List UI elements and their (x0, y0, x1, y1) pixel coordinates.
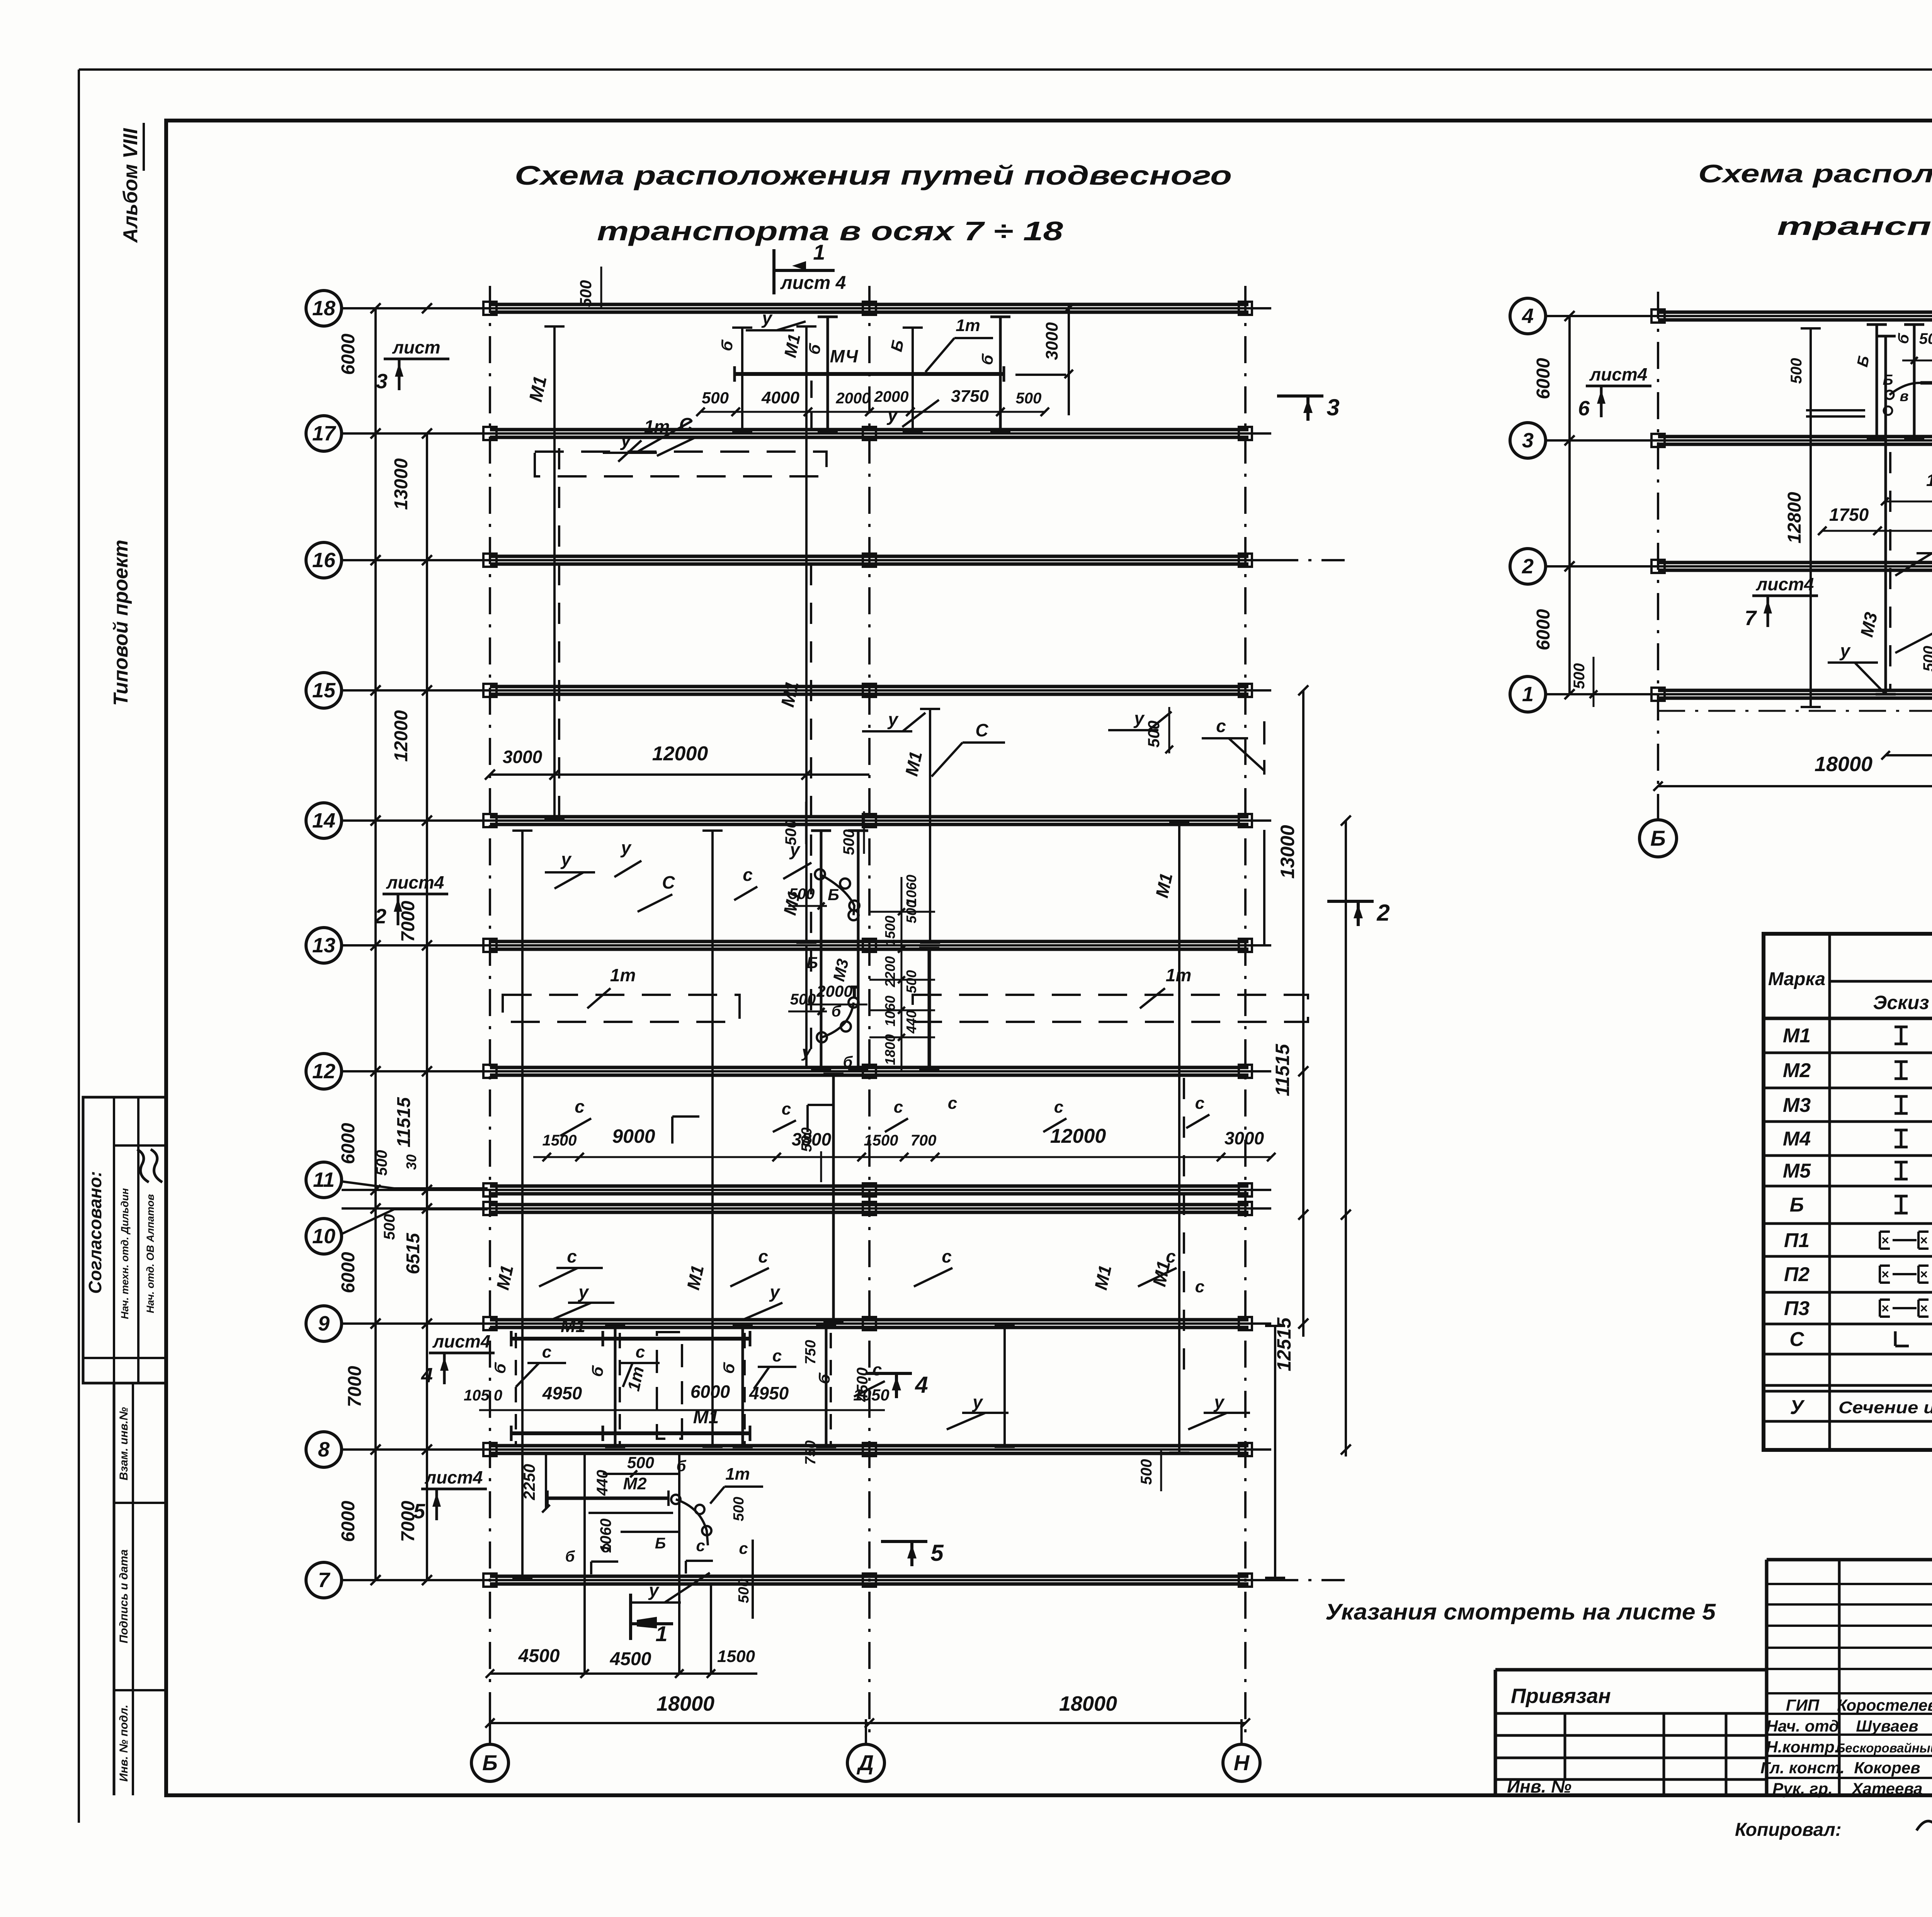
svg-text:М4: М4 (1783, 1128, 1811, 1150)
svg-text:105 0: 105 0 (464, 1387, 502, 1404)
svg-text:3: 3 (1327, 394, 1339, 420)
svg-text:У: У (1790, 1396, 1805, 1419)
svg-text:500: 500 (1919, 330, 1932, 347)
svg-text:4950: 4950 (749, 1383, 789, 1403)
svg-text:12000: 12000 (1050, 1125, 1106, 1147)
svg-text:с: с (1054, 1098, 1063, 1117)
svg-text:Взам. инв.№: Взам. инв.№ (117, 1407, 130, 1480)
svg-text:1500: 1500 (882, 916, 898, 947)
svg-text:с: с (872, 1360, 882, 1379)
svg-text:4: 4 (421, 1364, 433, 1387)
svg-text:500: 500 (789, 885, 815, 902)
svg-text:с: с (636, 1343, 645, 1361)
svg-text:Шуваев: Шуваев (1856, 1717, 1918, 1735)
svg-text:6: 6 (1578, 397, 1590, 420)
svg-text:440: 440 (903, 1010, 919, 1034)
svg-text:2000: 2000 (816, 982, 852, 1000)
svg-text:1: 1 (1522, 683, 1534, 706)
svg-text:4950: 4950 (542, 1383, 582, 1403)
svg-text:1500: 1500 (717, 1647, 755, 1666)
svg-text:б: б (843, 1054, 853, 1071)
svg-text:1750: 1750 (1829, 505, 1869, 525)
svg-text:лист 4: лист 4 (780, 273, 846, 293)
svg-text:Типовой проект: Типовой проект (110, 540, 132, 706)
svg-text:МЧ: МЧ (830, 346, 859, 366)
svg-text:500: 500 (736, 1579, 752, 1603)
svg-text:500: 500 (731, 1497, 747, 1521)
svg-text:2000: 2000 (874, 388, 909, 405)
svg-text:10: 10 (312, 1225, 335, 1248)
svg-text:3000: 3000 (1043, 322, 1061, 360)
svg-text:С: С (679, 415, 693, 435)
svg-text:1т: 1т (956, 316, 980, 335)
svg-text:×: × (1920, 1233, 1928, 1248)
svg-text:у: у (578, 1282, 589, 1302)
svg-text:Нач. отд. ОВ Алпатов: Нач. отд. ОВ Алпатов (145, 1194, 156, 1313)
svg-text:18000: 18000 (1815, 753, 1872, 776)
svg-text:с: с (772, 1346, 782, 1365)
svg-text:1т: 1т (644, 416, 670, 437)
svg-text:500: 500 (1016, 390, 1042, 407)
title block (штамп) (1495, 1668, 1767, 1672)
svg-text:3800: 3800 (792, 1129, 832, 1149)
svg-text:500: 500 (1571, 663, 1588, 689)
svg-text:4000: 4000 (761, 388, 799, 407)
svg-text:3: 3 (376, 370, 388, 393)
svg-text:П2: П2 (1784, 1263, 1810, 1286)
svg-text:Согласовано:: Согласовано: (85, 1171, 105, 1294)
svg-text:Марка: Марка (1768, 969, 1825, 989)
svg-text:Инв. №: Инв. № (1507, 1776, 1571, 1796)
svg-text:500: 500 (1920, 646, 1932, 672)
svg-text:6000: 6000 (338, 1501, 359, 1542)
svg-text:4: 4 (1522, 304, 1534, 328)
svg-text:Б: Б (1650, 826, 1666, 850)
svg-text:1: 1 (813, 240, 825, 264)
svg-text:С: С (975, 720, 988, 740)
svg-text:П1: П1 (1784, 1229, 1810, 1252)
svg-text:1800: 1800 (882, 1034, 898, 1065)
svg-text:с: с (1195, 1094, 1204, 1113)
svg-text:М1: М1 (1783, 1025, 1811, 1047)
svg-text:Привязан: Привязан (1511, 1684, 1611, 1708)
svg-text:у: у (620, 430, 632, 450)
svg-text:с: с (575, 1096, 585, 1117)
svg-text:с: с (942, 1246, 952, 1266)
svg-text:у: у (560, 849, 572, 869)
svg-text:7: 7 (318, 1569, 331, 1592)
svg-text:13: 13 (312, 934, 335, 957)
svg-text:6000: 6000 (338, 1252, 359, 1293)
svg-text:с: с (601, 1538, 610, 1556)
svg-text:б: б (677, 1458, 687, 1475)
svg-text:5: 5 (930, 1540, 944, 1566)
svg-text:9: 9 (318, 1312, 330, 1335)
svg-text:×: × (1881, 1233, 1889, 1248)
svg-text:с: с (743, 865, 753, 885)
svg-text:транспорта в осях 7: транспорта в осях 7 ÷ 18 (597, 216, 1063, 246)
svg-text:16: 16 (312, 549, 336, 572)
svg-text:М3: М3 (1783, 1094, 1811, 1117)
svg-text:6000: 6000 (1533, 358, 1554, 399)
svg-text:7000: 7000 (345, 1366, 365, 1407)
svg-text:Коростелев: Коростелев (1837, 1696, 1932, 1714)
svg-text:×: × (1920, 1267, 1928, 1282)
svg-text:4500: 4500 (610, 1649, 651, 1669)
svg-text:3750: 3750 (951, 387, 989, 406)
svg-text:Хатеева: Хатеева (1851, 1779, 1922, 1798)
svg-text:18000: 18000 (1059, 1692, 1117, 1715)
svg-text:1500: 1500 (543, 1132, 577, 1149)
svg-text:18000: 18000 (656, 1692, 714, 1715)
svg-text:500: 500 (782, 820, 799, 846)
svg-text:13000: 13000 (1277, 825, 1298, 879)
svg-text:500: 500 (1788, 358, 1805, 384)
svg-text:17: 17 (312, 422, 337, 445)
svg-text:Копировал:: Копировал: (1735, 1820, 1842, 1840)
svg-text:18: 18 (312, 297, 335, 320)
svg-text:13000: 13000 (391, 458, 412, 510)
svg-text:2: 2 (1522, 555, 1534, 578)
svg-text:500: 500 (373, 1150, 390, 1176)
svg-text:у: у (801, 1043, 812, 1061)
svg-text:Рук. гр.: Рук. гр. (1772, 1779, 1833, 1798)
svg-text:500: 500 (903, 900, 919, 923)
svg-text:9000: 9000 (612, 1125, 655, 1147)
svg-text:4: 4 (915, 1372, 928, 1398)
svg-text:Д: Д (857, 1750, 874, 1775)
svg-text:1т: 1т (610, 965, 636, 985)
svg-text:с: с (542, 1343, 551, 1361)
svg-text:2250: 2250 (520, 1464, 538, 1500)
svg-text:500: 500 (840, 829, 857, 855)
svg-text:у: у (887, 709, 899, 729)
svg-text:М2: М2 (623, 1474, 647, 1493)
svg-text:11: 11 (313, 1168, 335, 1191)
svg-text:Подпись и дата: Подпись и дата (117, 1549, 130, 1643)
svg-text:15: 15 (312, 679, 336, 702)
svg-text:500: 500 (702, 389, 729, 407)
svg-text:у: у (761, 308, 773, 328)
svg-text:б: б (832, 1003, 842, 1020)
svg-text:Альбом VIII: Альбом VIII (119, 128, 142, 243)
svg-text:лист4: лист4 (1756, 574, 1814, 594)
svg-text:Гл. конст.: Гл. конст. (1760, 1759, 1845, 1777)
svg-text:с: с (696, 1536, 705, 1555)
left plan: suspended transport tracks, axes 7-18 (489, 286, 491, 1739)
svg-text:1т: 1т (1166, 965, 1191, 985)
svg-text:500: 500 (1138, 1459, 1155, 1485)
svg-text:у: у (648, 1580, 660, 1600)
svg-text:Схема расположения путей по: Схема расположения путей подвесного (515, 160, 1232, 190)
svg-text:с: с (1216, 716, 1226, 736)
svg-text:Указания смотреть на листе: Указания смотреть на листе 5 (1325, 1599, 1716, 1625)
svg-text:7000: 7000 (398, 901, 418, 942)
svg-text:Инв. № подл.: Инв. № подл. (117, 1705, 130, 1781)
svg-text:3000: 3000 (503, 747, 543, 767)
svg-text:Кокорев: Кокорев (1854, 1759, 1920, 1777)
right plan: suspended transport tracks, axes 1-4 (1657, 292, 1659, 804)
svg-text:Б: Б (828, 885, 839, 904)
svg-text:2: 2 (1376, 900, 1389, 926)
svg-text:3: 3 (1522, 429, 1534, 452)
svg-text:Сечение и конструкцию см. 1.42: Сечение и конструкцию см. 1.426.2-3 вып.… (1838, 1398, 1932, 1417)
svg-text:Б: Б (655, 1535, 666, 1552)
svg-text:500: 500 (903, 970, 919, 993)
svg-text:П3: П3 (1784, 1297, 1810, 1320)
svg-text:у: у (972, 1392, 983, 1412)
svg-text:лист: лист (392, 337, 440, 357)
svg-text:лист4: лист4 (1589, 364, 1648, 384)
svg-text:ГИП: ГИП (1786, 1696, 1820, 1714)
svg-text:12: 12 (312, 1060, 335, 1083)
svg-text:500: 500 (1145, 721, 1163, 748)
svg-text:Н: Н (1234, 1750, 1250, 1775)
svg-text:у: у (887, 405, 899, 425)
svg-text:С: С (1789, 1328, 1804, 1351)
svg-text:С: С (662, 872, 675, 892)
svg-text:лист4: лист4 (425, 1467, 483, 1487)
sheet borders and frame (79, 68, 1932, 71)
svg-text:Бескоровайный: Бескоровайный (1836, 1741, 1932, 1755)
svg-text:1500: 1500 (864, 1132, 898, 1149)
svg-text:Б: Б (1883, 372, 1893, 388)
svg-text:с: с (567, 1246, 577, 1266)
svg-text:М1: М1 (561, 1316, 585, 1336)
svg-text:750: 750 (803, 1340, 819, 1364)
svg-text:2: 2 (374, 905, 386, 928)
svg-text:14: 14 (312, 809, 335, 832)
svg-text:1т: 1т (725, 1465, 750, 1484)
svg-text:1060: 1060 (882, 996, 898, 1026)
svg-text:у: у (769, 1282, 781, 1302)
svg-text:с: с (1166, 1246, 1176, 1266)
svg-text:с: с (758, 1246, 768, 1266)
svg-text:с: с (894, 1098, 903, 1117)
svg-text:Б: Б (806, 953, 818, 972)
svg-text:×: × (1881, 1301, 1889, 1316)
svg-text:Б: Б (482, 1750, 498, 1775)
svg-text:12000: 12000 (652, 743, 708, 765)
svg-text:Схема расположения путей: Схема расположения путей подвесного (1698, 159, 1932, 188)
svg-text:×: × (1881, 1267, 1889, 1282)
svg-text:транспорта в осях 1 ÷: транспорта в осях 1 ÷ 4 (1777, 212, 1932, 240)
svg-text:2000: 2000 (836, 390, 871, 407)
svg-text:11515: 11515 (1272, 1043, 1293, 1096)
svg-text:30: 30 (403, 1154, 419, 1170)
svg-text:7: 7 (1745, 607, 1757, 630)
svg-text:у: у (1213, 1392, 1225, 1412)
svg-text:750: 750 (803, 1440, 819, 1465)
svg-text:8: 8 (318, 1438, 330, 1461)
svg-text:2200: 2200 (882, 956, 898, 987)
svg-text:12000: 12000 (391, 710, 412, 762)
svg-text:440: 440 (594, 1470, 611, 1496)
svg-text:6000: 6000 (338, 333, 359, 375)
svg-text:с: с (1195, 1277, 1204, 1296)
svg-text:с: с (782, 1100, 791, 1118)
svg-text:с: с (948, 1094, 957, 1113)
svg-text:4500: 4500 (518, 1646, 560, 1666)
svg-text:лист4: лист4 (432, 1331, 491, 1351)
svg-text:М5: М5 (1783, 1160, 1811, 1182)
svg-text:у: у (1133, 708, 1145, 728)
svg-text:11515: 11515 (394, 1097, 414, 1147)
svg-text:у: у (620, 838, 632, 858)
svg-text:в: в (1900, 388, 1909, 404)
svg-text:Нач. техн. отд. Дильдин: Нач. техн. отд. Дильдин (119, 1188, 131, 1319)
svg-text:6000: 6000 (690, 1382, 730, 1402)
svg-text:1200: 1200 (1926, 471, 1932, 490)
svg-text:700: 700 (911, 1132, 937, 1149)
svg-text:Нач. отд: Нач. отд (1766, 1717, 1839, 1735)
svg-text:×: × (1920, 1301, 1928, 1316)
svg-text:12800: 12800 (1784, 492, 1805, 544)
svg-text:500: 500 (627, 1453, 654, 1472)
svg-text:М2: М2 (1783, 1059, 1811, 1082)
svg-text:лист4: лист4 (386, 872, 444, 892)
svg-text:6000: 6000 (1533, 609, 1554, 650)
svg-text:б: б (565, 1548, 575, 1565)
svg-text:6000: 6000 (338, 1123, 359, 1164)
svg-text:Б: Б (1790, 1194, 1804, 1216)
svg-text:5: 5 (413, 1500, 425, 1523)
svg-text:3000: 3000 (1225, 1128, 1264, 1148)
svg-text:с: с (739, 1539, 748, 1557)
svg-text:500: 500 (577, 280, 595, 307)
svg-text:Н.контр.: Н.контр. (1766, 1738, 1839, 1756)
svg-text:1050: 1050 (853, 1386, 889, 1404)
svg-text:500: 500 (381, 1214, 398, 1240)
svg-text:6515: 6515 (403, 1232, 423, 1274)
svg-text:Эскиз: Эскиз (1873, 992, 1929, 1013)
svg-text:1: 1 (655, 1621, 667, 1646)
svg-text:у: у (1839, 641, 1851, 661)
